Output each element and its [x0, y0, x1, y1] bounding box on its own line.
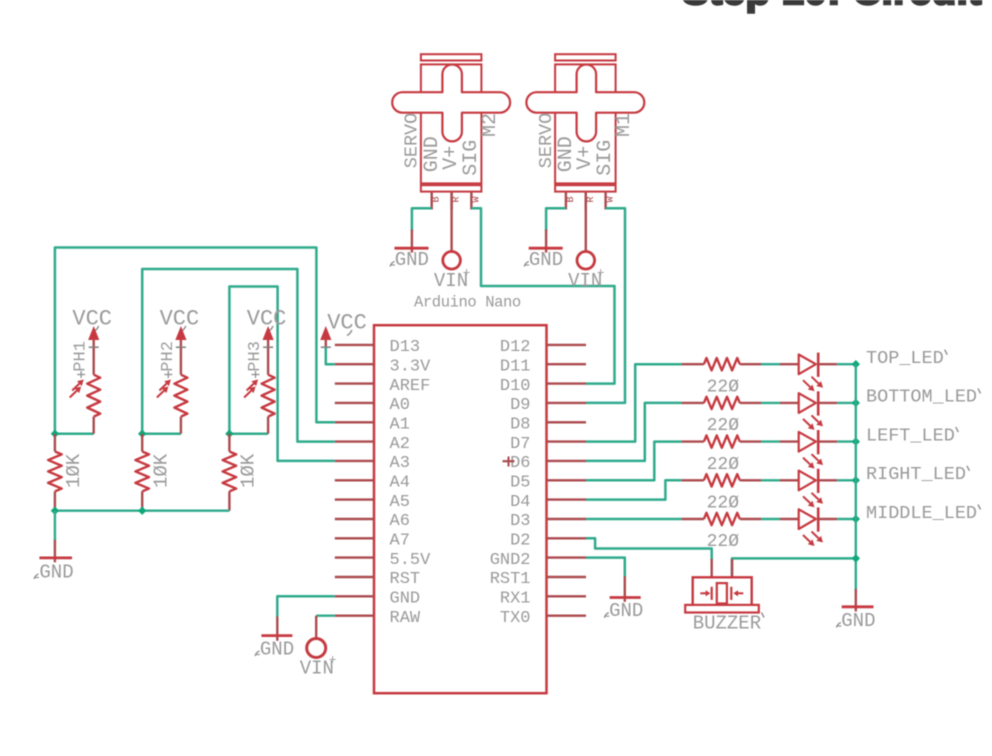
wire M1.R to VIN: [585, 192, 587, 252]
svg-text:A6: A6: [390, 512, 410, 531]
wire M1.B to GND: [546, 208, 566, 231]
wire M2.R to VIN: [450, 192, 452, 252]
svg-text:Step 10: Circuit: Step 10: Circuit: [682, 0, 982, 13]
svg-text:RST1: RST1: [490, 570, 531, 589]
svg-text:D6: D6: [510, 454, 530, 473]
svg-text:SIG: SIG: [460, 140, 483, 176]
svg-text:M2: M2: [479, 113, 502, 137]
svg-text:3.3V: 3.3V: [390, 357, 432, 376]
svg-text:22Ø: 22Ø: [707, 377, 740, 397]
svg-text:RIGHT_LED: RIGHT_LED: [866, 464, 966, 485]
LED D5 MIDDLE_LED: [780, 507, 837, 546]
svg-text:VCC: VCC: [72, 307, 112, 332]
junction PH1/R1: [51, 430, 59, 438]
svg-text:D11: D11: [500, 357, 531, 376]
svg-text:D8: D8: [510, 416, 530, 435]
wire LED1 to bus: [837, 363, 856, 365]
buzzer BUZZER: [685, 559, 764, 635]
svg-text:TOP_LED: TOP_LED: [866, 348, 944, 369]
servo M1: [526, 54, 644, 191]
svg-text:PH1: PH1: [72, 341, 91, 372]
svg-text:A0: A0: [390, 396, 410, 415]
svg-text:RST: RST: [390, 570, 421, 589]
svg-text:1ØK: 1ØK: [238, 453, 260, 488]
title text (cropped): [682, 0, 982, 13]
junction LEFT_LED: [852, 437, 860, 445]
wire LED2 to bus: [837, 402, 856, 404]
svg-text:A5: A5: [390, 493, 410, 512]
wire D7 to R4: [586, 364, 682, 441]
wire M2.W to D10: [471, 208, 614, 383]
svg-text:LEFT_LED: LEFT_LED: [866, 425, 955, 446]
svg-text:D13: D13: [390, 338, 421, 357]
svg-text:22Ø: 22Ø: [707, 494, 740, 514]
junction TOP_LED: [852, 360, 860, 368]
ground M1 GND: [524, 230, 563, 271]
svg-text:VCC: VCC: [160, 307, 200, 332]
supply M2 VIN+: [434, 251, 471, 292]
svg-text:D12: D12: [500, 338, 531, 357]
ground bus GND: [836, 589, 875, 632]
junction buzzer bus: [852, 554, 860, 562]
svg-text:D7: D7: [510, 435, 530, 454]
svg-text:B: B: [566, 196, 577, 202]
wire R7 to LED4: [761, 479, 780, 481]
svg-text:GND2: GND2: [490, 551, 531, 570]
supply VCC PH1: [72, 307, 112, 348]
svg-text:M1: M1: [613, 113, 636, 137]
photoresistor PH2: [157, 341, 188, 434]
svg-text:VCC: VCC: [327, 311, 367, 336]
junction MIDDLE_LED: [852, 515, 860, 523]
wire M2.B to GND: [412, 208, 432, 231]
servo M1 pins B R W: [566, 192, 617, 210]
wire D3 to R8: [586, 518, 682, 520]
svg-text:GND: GND: [529, 249, 563, 271]
svg-text:GND: GND: [39, 561, 73, 583]
resistor 10K R3: [223, 434, 260, 511]
node MIDDLE_LED: [866, 503, 981, 524]
svg-text:GND: GND: [395, 249, 429, 271]
wire D6 to R5: [586, 403, 682, 461]
svg-text:AREF: AREF: [390, 377, 431, 396]
supply M1 VIN+: [568, 251, 605, 292]
svg-text:D3: D3: [510, 512, 530, 531]
wire bottom rail: [55, 510, 230, 512]
svg-text:MIDDLE_LED: MIDDLE_LED: [866, 503, 977, 524]
wire R4 to LED1: [761, 363, 780, 365]
Arduino left pin stubs: [335, 345, 374, 616]
node LEFT_LED: [866, 425, 958, 446]
resistor 220 R4: [682, 358, 761, 397]
ground GND2: [604, 576, 643, 622]
junction rail 2: [138, 507, 146, 515]
wire RAW to VIN: [316, 615, 335, 617]
svg-text:W: W: [606, 196, 617, 202]
svg-text:5.5V: 5.5V: [390, 551, 432, 570]
wire D2 to buzzer: [586, 538, 712, 560]
servo M2: [392, 54, 510, 191]
IC U1 Arduino Nano: [374, 294, 547, 694]
svg-text:A4: A4: [390, 474, 410, 493]
svg-text:D9: D9: [510, 396, 530, 415]
wire D4 to R7: [586, 480, 682, 499]
svg-text:R: R: [452, 196, 463, 202]
supply VCC PH2: [160, 307, 200, 348]
wire LED3 to bus: [837, 440, 856, 442]
wire R6 to LED3: [761, 440, 780, 442]
svg-text:A3: A3: [390, 454, 410, 473]
resistor 220 R8: [682, 513, 761, 552]
photoresistor PH3: [244, 341, 275, 434]
svg-text:+: +: [597, 266, 605, 281]
LED D4 RIGHT_LED: [780, 469, 837, 508]
wire PH2 net to A2: [142, 269, 335, 442]
wire LED ground bus: [855, 364, 857, 589]
svg-text:D10: D10: [500, 377, 531, 396]
resistor 10K R2: [135, 434, 172, 511]
svg-text:+: +: [463, 266, 471, 281]
node BOTTOM_LED: [866, 387, 981, 408]
wire PH3 net to A3: [229, 287, 334, 461]
svg-text:BOTTOM_LED: BOTTOM_LED: [866, 387, 977, 408]
svg-text:W: W: [471, 196, 482, 202]
junction PH3/R3: [225, 430, 233, 438]
supply VCC U1: [320, 311, 367, 348]
svg-text:D5: D5: [510, 474, 530, 493]
wire R8 to LED5: [761, 518, 780, 520]
resistor 220 R7: [682, 474, 761, 513]
svg-text:TX0: TX0: [500, 609, 531, 628]
svg-text:SERVO: SERVO: [536, 113, 557, 169]
junction mark at D6: [503, 457, 515, 467]
svg-text:RX1: RX1: [500, 590, 531, 609]
svg-text:GND: GND: [260, 638, 294, 660]
wire PH1 net to A1: [55, 248, 335, 434]
svg-text:PH3: PH3: [246, 341, 265, 372]
svg-text:+: +: [329, 652, 337, 667]
LED D3 LEFT_LED: [780, 430, 837, 469]
node TOP_LED: [866, 348, 947, 369]
svg-text:GND: GND: [390, 590, 421, 609]
wire D5 to R6: [586, 442, 682, 481]
wire LED5 to bus: [837, 518, 856, 520]
ground GND left: [34, 511, 74, 584]
svg-text:A2: A2: [390, 435, 410, 454]
wire GND pin to ground: [277, 596, 335, 617]
junction rail 1: [51, 507, 59, 515]
servo M2 pins B R W: [432, 192, 483, 210]
svg-text:RAW: RAW: [390, 609, 421, 628]
Arduino right pin stubs: [547, 345, 587, 616]
node RIGHT_LED: [866, 464, 969, 485]
supply VIN+ U1: [300, 616, 337, 680]
svg-text:B: B: [432, 196, 443, 202]
svg-text:D4: D4: [510, 493, 530, 512]
svg-text:Arduino Nano: Arduino Nano: [414, 294, 521, 312]
resistor 220 R5: [682, 397, 761, 436]
ground M2 GND: [390, 230, 429, 271]
wire GND2 to ground: [586, 558, 625, 577]
svg-text:VCC: VCC: [247, 307, 287, 332]
resistor 10K R1: [48, 434, 85, 511]
svg-text:BUZZER: BUZZER: [693, 613, 761, 635]
junction BOTTOM_LED: [852, 399, 860, 407]
wire R5 to LED2: [761, 402, 780, 404]
LED D2 BOTTOM_LED: [780, 391, 837, 430]
svg-text:SIG: SIG: [594, 140, 617, 176]
photoresistor PH1: [70, 341, 101, 434]
svg-text:GND: GND: [841, 610, 875, 632]
supply VCC PH3: [247, 307, 287, 348]
wire buzzer to bus: [732, 558, 856, 577]
svg-text:D2: D2: [510, 532, 530, 551]
wire LED4 to bus: [837, 479, 856, 481]
svg-text:PH2: PH2: [159, 341, 178, 372]
svg-text:A7: A7: [390, 532, 410, 551]
Arduino right pin labels: [490, 338, 531, 628]
wire VCC to 3.3V: [326, 348, 335, 365]
svg-text:SERVO: SERVO: [402, 113, 423, 169]
svg-text:1ØK: 1ØK: [150, 453, 172, 488]
svg-text:1ØK: 1ØK: [63, 453, 85, 488]
svg-text:22Ø: 22Ø: [707, 416, 740, 436]
svg-text:R: R: [586, 196, 597, 202]
junction PH2/R2: [138, 430, 146, 438]
resistor 220 R6: [682, 435, 761, 474]
svg-text:22Ø: 22Ø: [707, 455, 740, 475]
svg-text:GND: GND: [609, 600, 643, 622]
ground GND U1: [255, 617, 294, 661]
wire M1.W to D9: [586, 208, 625, 403]
junction RIGHT_LED: [852, 476, 860, 484]
Arduino left pin labels: [390, 338, 432, 628]
LED D1 TOP_LED: [780, 353, 837, 392]
svg-text:A1: A1: [390, 416, 410, 435]
